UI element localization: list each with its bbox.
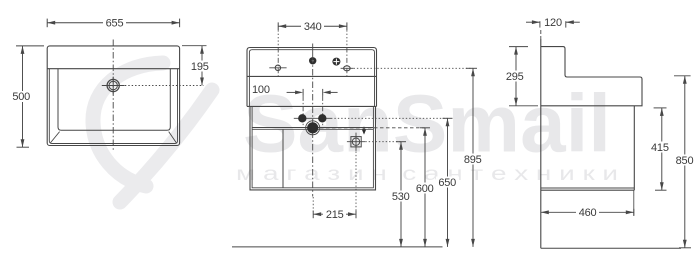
top view inner rim line xyxy=(49,69,177,144)
faucet hole top view xyxy=(102,77,125,95)
svg-text:215: 215 xyxy=(326,209,344,221)
tap hole center filled xyxy=(309,57,316,64)
front view sink bottom line xyxy=(247,105,377,107)
dimension 215 xyxy=(313,152,356,219)
top view outer rim xyxy=(47,46,179,146)
dimension 195 xyxy=(182,46,207,86)
svg-text:850: 850 xyxy=(676,155,694,167)
dimension 650 xyxy=(443,118,453,247)
top view basin corner slopes xyxy=(50,132,59,143)
dotted line to 600 xyxy=(320,127,425,129)
mounting holes xyxy=(294,114,331,122)
dimension 460 xyxy=(541,190,634,216)
dotted line to 195 dim xyxy=(122,85,204,87)
svg-text:655: 655 xyxy=(106,17,124,29)
front view inner rim line xyxy=(249,50,374,107)
top view deck edge xyxy=(47,68,179,70)
cabinet door divider xyxy=(282,129,284,188)
side view cabinet xyxy=(541,106,635,190)
overflow square symbol xyxy=(347,133,365,151)
svg-text:650: 650 xyxy=(438,177,456,189)
dotted line to 650 xyxy=(331,117,448,119)
dotted extension lines 340 xyxy=(277,30,279,46)
dimension 340 xyxy=(278,22,347,30)
cabinet shelf lines xyxy=(252,127,373,129)
svg-text:100: 100 xyxy=(252,84,270,96)
dotted line to 895 xyxy=(354,67,474,69)
svg-text:340: 340 xyxy=(304,21,322,33)
front view centerline xyxy=(312,44,314,197)
side view back line xyxy=(540,30,542,248)
dimension 120 xyxy=(526,20,580,27)
svg-text:295: 295 xyxy=(506,71,524,83)
dimension 530 xyxy=(396,142,406,247)
cabinet outline front xyxy=(250,106,376,189)
svg-text:500: 500 xyxy=(12,91,30,103)
side view floor line xyxy=(541,247,681,249)
dimension 895 xyxy=(466,68,477,247)
front view deck line xyxy=(247,75,377,77)
watermark logo swirl xyxy=(93,63,212,202)
svg-text:895: 895 xyxy=(464,154,482,166)
dimension 500 xyxy=(16,46,44,147)
front view basin outline xyxy=(247,48,377,107)
svg-text:600: 600 xyxy=(416,183,434,195)
dimension 415 xyxy=(654,108,667,190)
tap hole left cross xyxy=(269,65,286,70)
tap hole screw filled xyxy=(332,58,340,66)
dimension 100 xyxy=(250,84,272,95)
svg-text:120: 120 xyxy=(544,17,562,29)
extension lines 100 to mounting holes xyxy=(302,96,304,127)
dimension 850 xyxy=(674,76,691,248)
floor line front xyxy=(232,246,443,248)
svg-text:460: 460 xyxy=(579,207,597,219)
drain hole xyxy=(306,121,320,135)
dimension 600 xyxy=(420,128,430,247)
side view profile xyxy=(541,47,642,106)
svg-text:195: 195 xyxy=(191,61,209,73)
dimension 295 xyxy=(509,47,538,106)
tap hole right cross xyxy=(341,66,354,71)
svg-text:530: 530 xyxy=(392,191,410,203)
dotted line to 530 xyxy=(365,141,401,143)
top view basin outline xyxy=(58,69,170,131)
dimension 655 xyxy=(47,19,179,28)
leader arrow xyxy=(362,127,366,135)
top view vertical centerline xyxy=(112,40,114,151)
svg-text:415: 415 xyxy=(651,142,669,154)
